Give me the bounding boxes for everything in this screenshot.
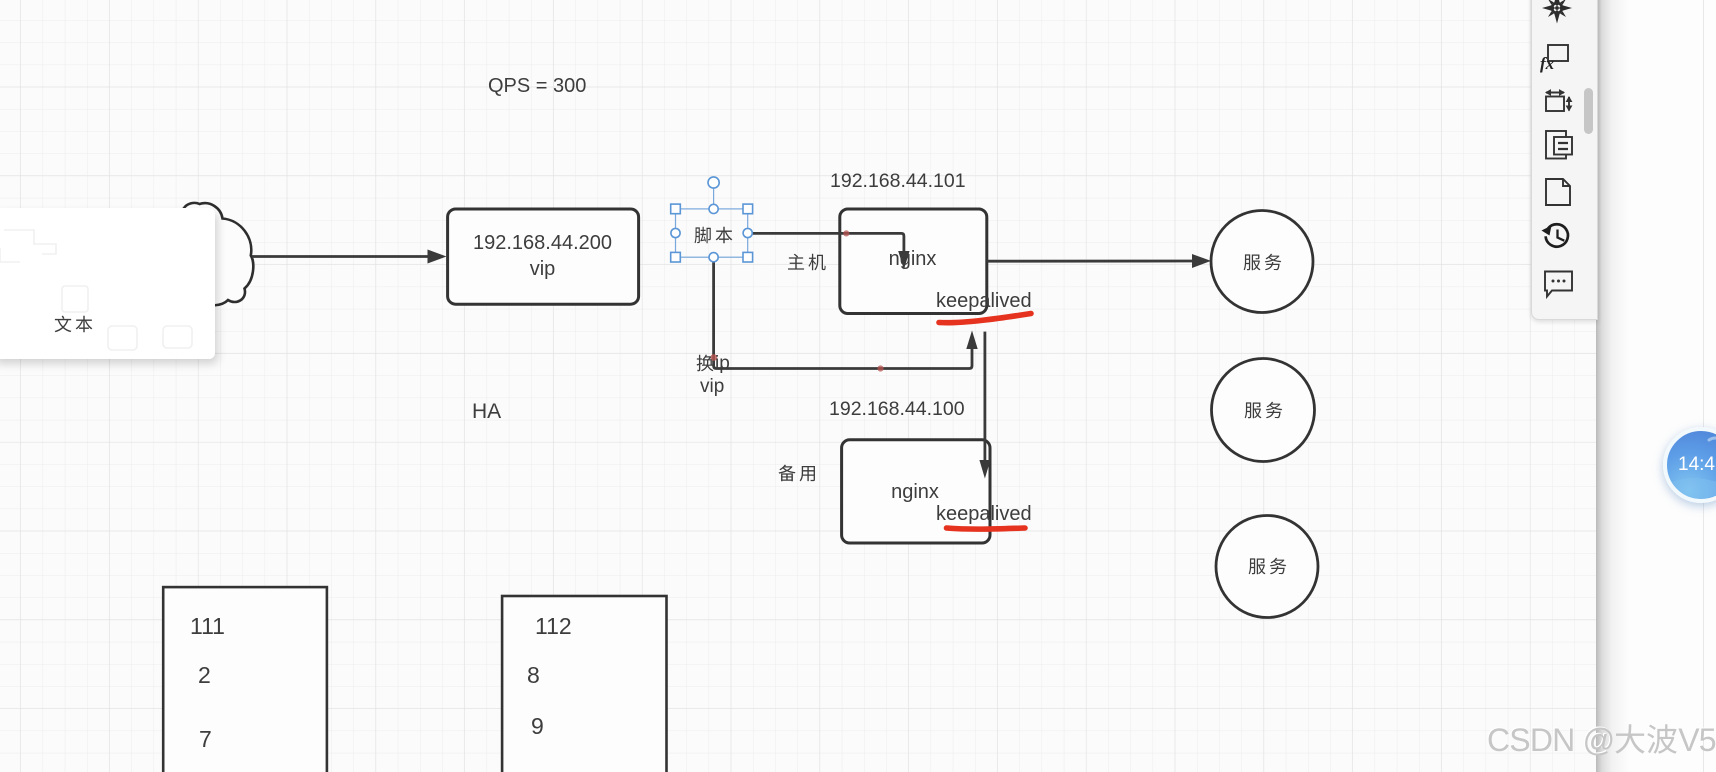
nginx master box [840, 209, 987, 314]
wire cloud -> vip box [252, 250, 447, 264]
red marker underline top keepalived [939, 314, 1031, 323]
icon: history [1546, 224, 1568, 246]
label HA [472, 400, 501, 424]
keepalived label top [936, 290, 1032, 313]
label wenben (text) [54, 315, 93, 338]
timestamp bubble [1663, 427, 1716, 503]
scrollbar thumb [1584, 88, 1593, 134]
label huan ip [696, 353, 730, 375]
label zhuji (master) [787, 253, 826, 276]
box111 labels [190, 613, 225, 640]
label 192.168.44.100 [829, 398, 965, 421]
red waypoint dot near huan-ip [710, 354, 717, 361]
label vip [700, 376, 724, 398]
icon: comment [1545, 272, 1572, 297]
box112 labels [535, 613, 572, 640]
icon: compass [1542, 0, 1572, 24]
icon: resize [1546, 97, 1564, 112]
label script (jiaoben) [694, 226, 733, 249]
faint ghost marks inside panel [0, 208, 222, 368]
keepalived label bottom [936, 503, 1032, 526]
red waypoint dot on horizontal wire [877, 365, 883, 371]
icon: fx image [1548, 45, 1568, 61]
service circle 1 [1211, 211, 1313, 313]
service circle 3 [1216, 516, 1318, 618]
service circle 2 [1212, 359, 1315, 462]
cloud (internet) [118, 203, 254, 306]
nginx label bottom [841, 481, 989, 504]
wire script bottom -> right -> up arrow to keepalived [714, 260, 978, 369]
box 111 [163, 587, 327, 772]
label QPS = 300 [488, 75, 586, 98]
label beiyong (backup) [778, 464, 817, 487]
corner handles [671, 204, 681, 214]
box 112 [502, 596, 666, 772]
icon: copy/outline [1546, 131, 1572, 159]
red waypoint dot on wire into nginx [843, 230, 849, 236]
right white side panel [1596, 0, 1716, 772]
red marker underline bottom keepalived [947, 528, 1026, 529]
vip box 192.168.44.200 [448, 209, 639, 304]
selection frame of script element [676, 189, 748, 258]
wire script -> nginx (down arrow inside box) [751, 233, 910, 269]
white tooltip panel over cloud [0, 208, 215, 359]
svg-text:fx: fx [1540, 54, 1555, 73]
label 192.168.44.101 [830, 170, 966, 193]
vip box label [447, 230, 638, 282]
icon: page [1546, 179, 1570, 205]
nginx label top [839, 248, 986, 271]
service circle labels [1243, 253, 1282, 276]
edge handles [709, 204, 718, 213]
rotation handle [708, 177, 719, 188]
wire nginx -> service1 [987, 254, 1211, 268]
watermark CSDN [1487, 722, 1716, 759]
nginx backup box [842, 440, 990, 543]
floating toolbar [1531, 0, 1598, 320]
wire down from keepalived area into backup box [979, 332, 990, 479]
